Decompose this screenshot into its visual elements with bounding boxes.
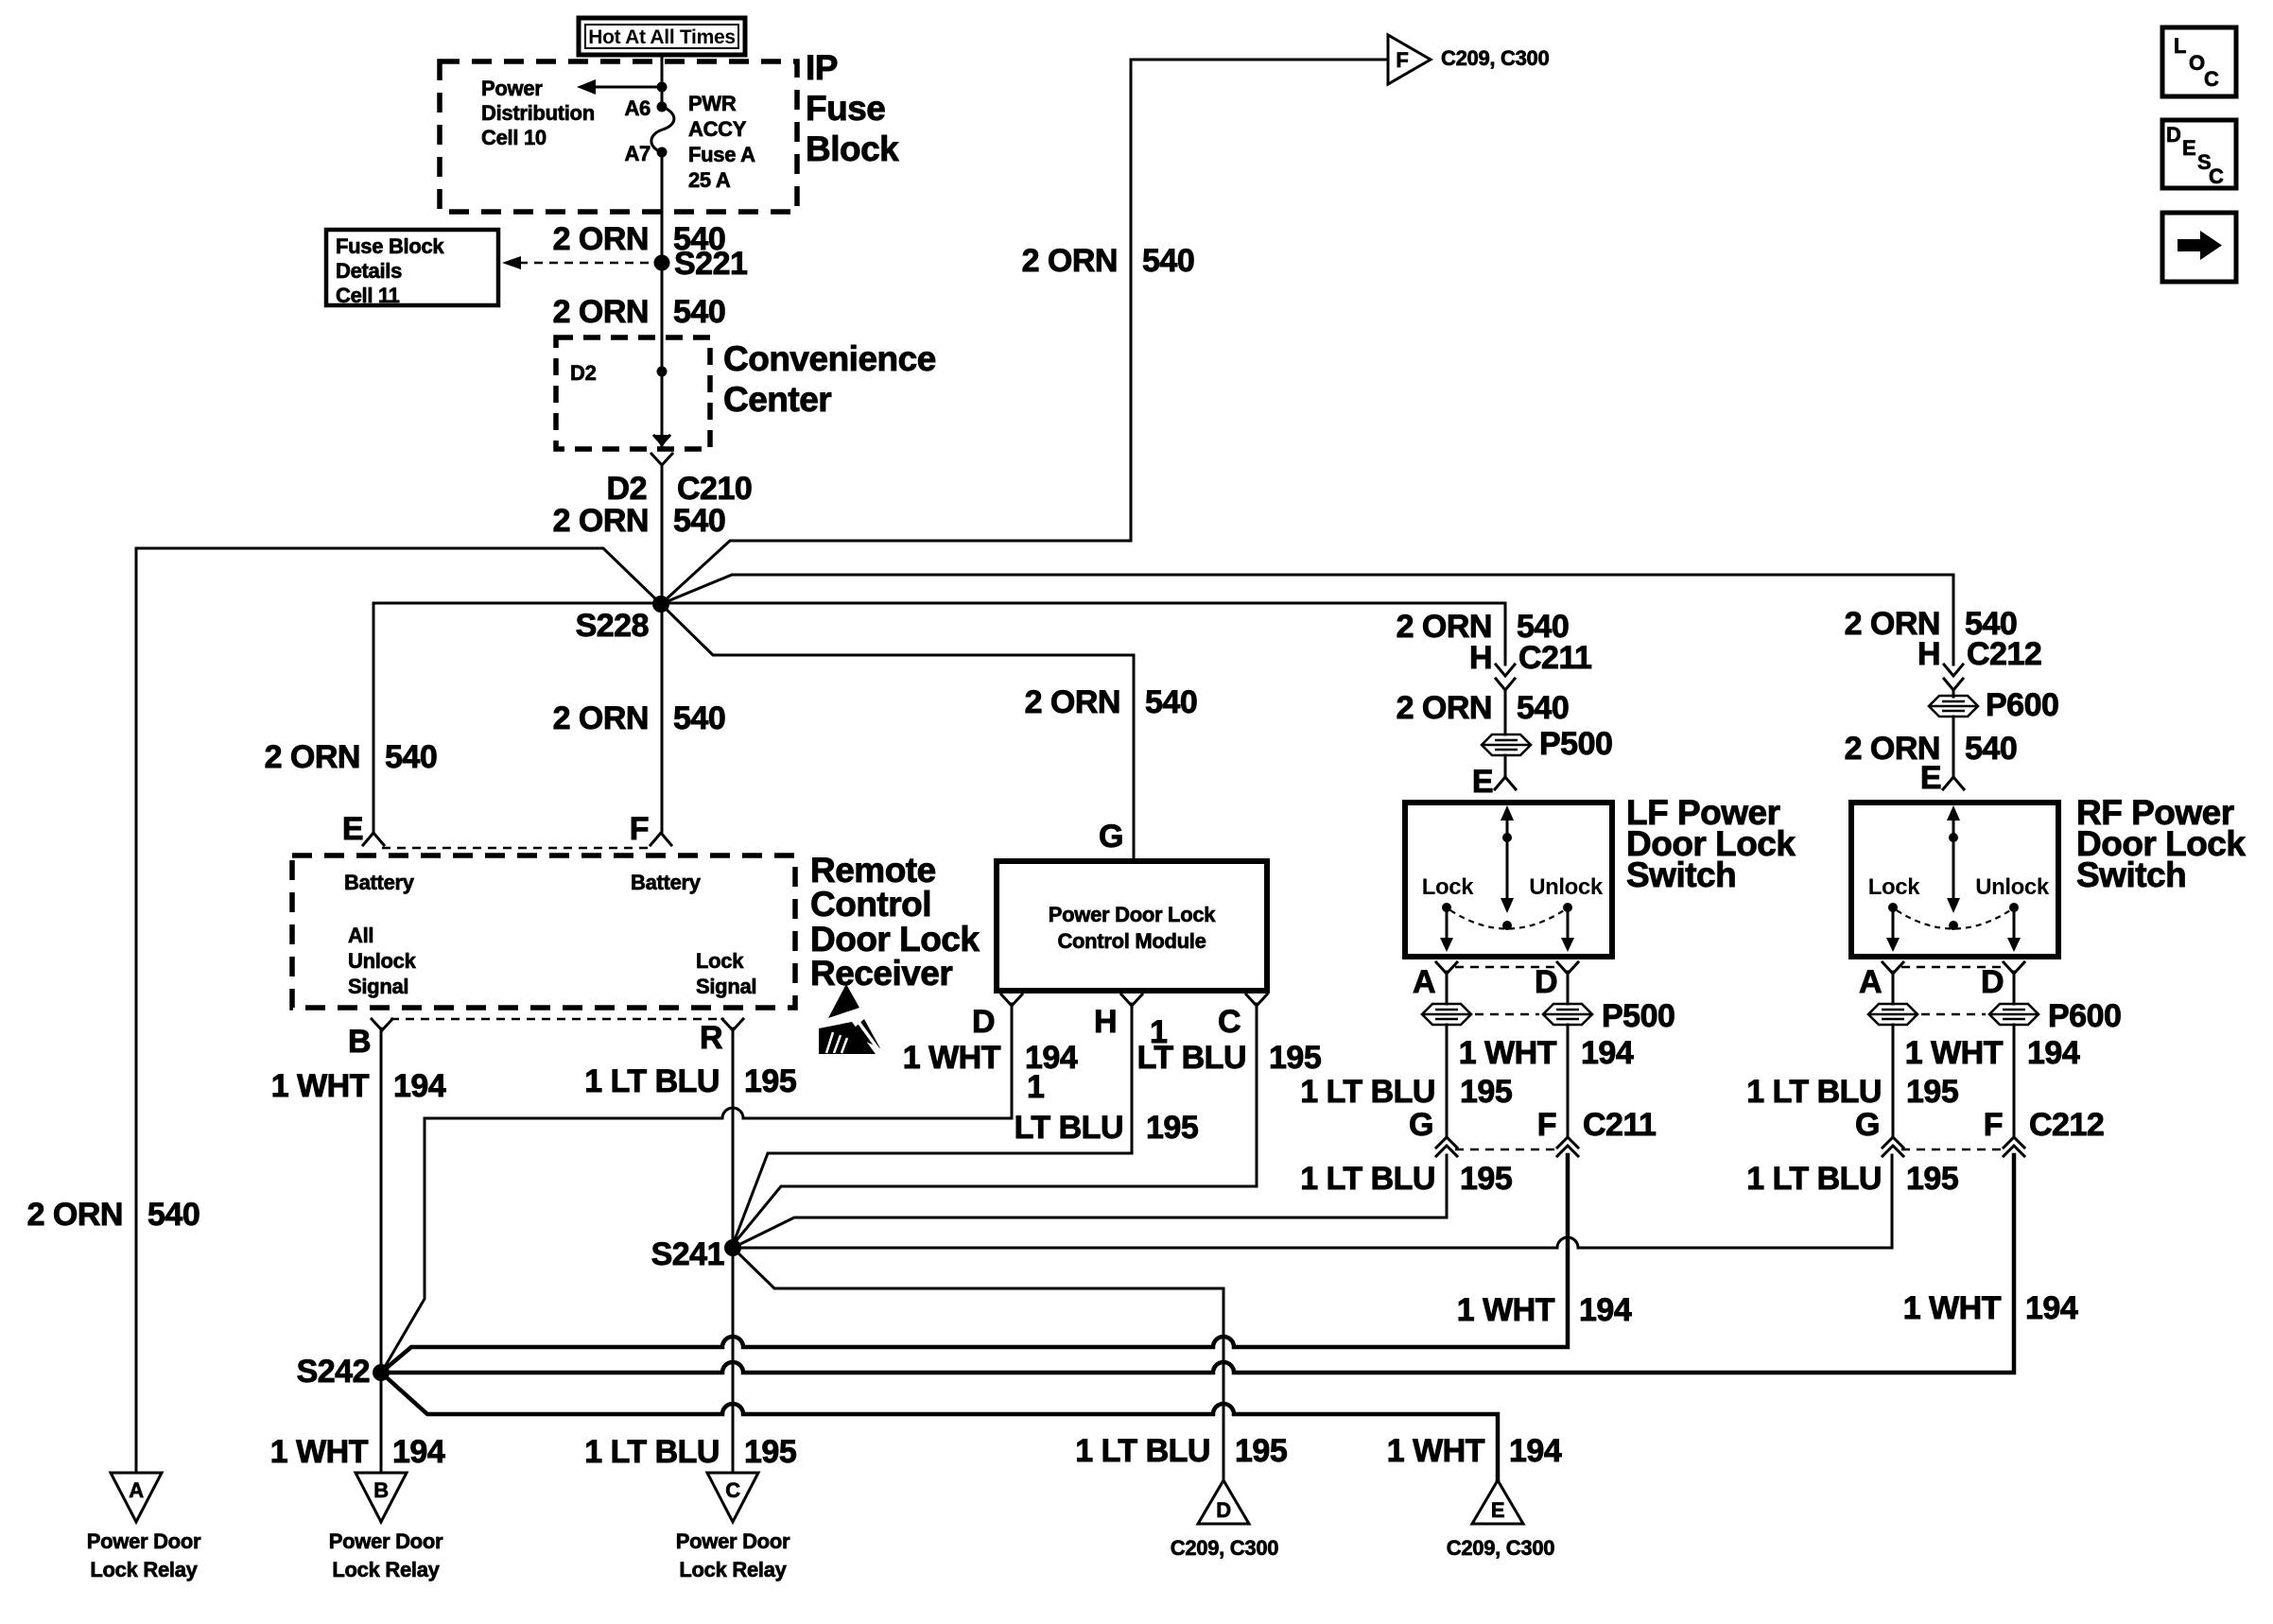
node pin R of receiver (Lock Signal) — [700, 1019, 743, 1056]
svg-text:195: 195 — [1235, 1433, 1287, 1469]
node pin E of RF switch — [1920, 760, 1964, 796]
svg-text:2 ORN: 2 ORN — [553, 700, 649, 736]
switch RF Lock contact — [1868, 874, 1920, 952]
svg-text:IP: IP — [806, 48, 838, 87]
svg-text:195: 195 — [1269, 1040, 1321, 1076]
svg-text:G: G — [1099, 819, 1123, 855]
svg-text:2 ORN: 2 ORN — [553, 503, 649, 539]
svg-text:All: All — [348, 924, 373, 947]
wire thin dashed connector line across RF switch pins — [1901, 966, 2005, 968]
svg-text:1 WHT: 1 WHT — [903, 1040, 1001, 1076]
wire 2 ORN 540 S228 branch to module pin G — [661, 604, 1134, 861]
svg-text:195: 195 — [1460, 1161, 1512, 1197]
node fuse value label PWR ACCY Fuse A 25 A — [688, 92, 755, 192]
Power Door Lock Control Module (box) — [997, 861, 1267, 991]
svg-text:1 LT BLU: 1 LT BLU — [584, 1434, 720, 1470]
svg-text:Power Door: Power Door — [87, 1529, 201, 1553]
wire 1 WHT 194 LF pin D to C211 pin F — [1567, 1025, 1570, 1137]
wire 1 LT BLU 195 S241 to LF C211 pin G — [733, 1155, 1447, 1248]
node pin A of LF switch — [1413, 962, 1457, 1000]
svg-text:540: 540 — [673, 294, 725, 330]
svg-text:A: A — [129, 1478, 144, 1502]
connector C212 lower (pins G and F) — [1855, 1107, 2104, 1156]
Remote Control Door Lock Receiver (dashed box) — [292, 855, 795, 1008]
svg-text:F: F — [1396, 48, 1408, 72]
svg-text:Cell 11: Cell 11 — [336, 284, 400, 307]
node pin H of module — [1094, 994, 1142, 1040]
switch RF internal common contact arm — [1897, 805, 2010, 930]
svg-text:1 WHT: 1 WHT — [1457, 1292, 1555, 1328]
svg-text:Power Door: Power Door — [329, 1529, 443, 1553]
wire RF pin A to P600 — [1892, 972, 1895, 1004]
svg-text:L: L — [2174, 34, 2186, 58]
svg-text:C212: C212 — [1967, 636, 2041, 672]
svg-text:1: 1 — [1027, 1069, 1044, 1105]
svg-text:1 LT BLU: 1 LT BLU — [1300, 1161, 1435, 1197]
wire LF pin D to P500 — [1567, 972, 1570, 1004]
wire 2 ORN 540 P600 to RF switch pin E — [1952, 717, 1955, 777]
svg-text:194: 194 — [2025, 1290, 2078, 1326]
svg-text:E: E — [2182, 136, 2195, 160]
svg-text:E: E — [1491, 1498, 1504, 1522]
svg-text:194: 194 — [2027, 1035, 2080, 1071]
switch LF internal common contact arm — [1450, 805, 1564, 930]
svg-text:540: 540 — [673, 700, 725, 736]
node pin D of module — [972, 994, 1022, 1040]
svg-text:1 LT BLU: 1 LT BLU — [1075, 1433, 1210, 1469]
svg-text:ACCY: ACCY — [688, 117, 747, 141]
svg-text:D: D — [1981, 964, 2004, 1000]
svg-text:E: E — [342, 811, 363, 847]
node pin D2 of convenience center — [657, 367, 668, 377]
fuse PWR ACCY Fuse A 25A (fuse element symbol) — [651, 107, 674, 152]
svg-text:Convenience: Convenience — [723, 339, 936, 378]
svg-text:Details: Details — [336, 259, 402, 283]
node pin A6 — [657, 102, 668, 112]
node pin A of RF switch — [1859, 962, 1903, 1000]
wire 1 WHT 194 S242 to LF C211 pin F (hops over two wires) — [381, 1155, 1568, 1373]
wire 2 ORN 540 from fuse A7 to S221 — [661, 152, 664, 445]
svg-text:1 WHT: 1 WHT — [1387, 1433, 1485, 1469]
svg-text:B: B — [373, 1478, 389, 1502]
svg-text:P600: P600 — [1986, 687, 2058, 723]
node pin F of receiver (Battery) — [651, 833, 671, 845]
svg-text:540: 540 — [1965, 731, 2017, 767]
svg-text:S242: S242 — [297, 1354, 370, 1390]
svg-text:Remote: Remote — [810, 851, 936, 890]
svg-text:H: H — [1917, 636, 1940, 672]
svg-text:F: F — [1984, 1107, 2003, 1143]
Convenience Center (dashed box) — [556, 337, 710, 449]
switch LF Lock contact — [1422, 874, 1474, 952]
node splice S242 — [373, 1364, 390, 1381]
node ESD sensitive symbol — [819, 984, 880, 1054]
connector C212 (in-line, H pin) on RF feed — [1917, 636, 2041, 690]
svg-text:Power: Power — [481, 77, 543, 100]
svg-text:195: 195 — [1906, 1161, 1958, 1197]
wire dashed reference arrow from S221 to fuse block details — [502, 256, 652, 269]
svg-text:1 LT BLU: 1 LT BLU — [584, 1063, 720, 1099]
grommet P500 on LF lock wire — [1422, 1004, 1471, 1025]
svg-text:Lock: Lock — [1422, 874, 1474, 900]
svg-text:1 WHT: 1 WHT — [1459, 1035, 1557, 1071]
wire 2 ORN 540 from C210 to S228 — [661, 464, 664, 833]
svg-text:Lock: Lock — [696, 949, 744, 973]
svg-text:Lock: Lock — [1868, 874, 1920, 900]
wire 2 ORN 540 S228 up-left branch to power door lock relay A (left column) — [136, 548, 661, 1473]
svg-text:195: 195 — [1906, 1074, 1958, 1110]
wire LF pin A to P500 — [1446, 972, 1449, 1004]
svg-text:2 ORN: 2 ORN — [553, 294, 649, 330]
svg-text:A: A — [1413, 964, 1435, 1000]
wire RF pin D to P600 — [2013, 972, 2016, 1004]
svg-text:194: 194 — [393, 1068, 446, 1104]
svg-text:194: 194 — [1509, 1433, 1562, 1469]
svg-text:Control: Control — [810, 885, 931, 924]
svg-text:Distribution: Distribution — [481, 101, 595, 125]
node pin A7 — [657, 147, 668, 158]
wire 1 WHT 194 RF pin D to C212 pin F — [2013, 1025, 2016, 1137]
svg-text:Unlock: Unlock — [348, 949, 417, 973]
svg-text:S241: S241 — [651, 1236, 724, 1272]
svg-text:D: D — [972, 1004, 995, 1040]
grommet P500 on LF feed — [1482, 726, 1612, 762]
grommet P600 on RF feed — [1929, 687, 2058, 723]
svg-text:P500: P500 — [1602, 998, 1674, 1034]
wire C212 to P600 (RF) — [1952, 689, 1955, 697]
svg-text:C211: C211 — [1518, 640, 1591, 676]
svg-text:D: D — [2166, 123, 2181, 147]
svg-text:2 ORN: 2 ORN — [265, 739, 360, 775]
wire 1 LT BLU 195 S241 to RF C212 pin G (hops over LF F wire) — [733, 1155, 1892, 1248]
svg-text:Receiver: Receiver — [810, 954, 952, 993]
wire 2 ORN 540 P500 to LF switch pin E — [1504, 755, 1507, 777]
svg-text:Battery: Battery — [344, 871, 415, 894]
svg-text:2 ORN: 2 ORN — [1397, 690, 1492, 726]
svg-text:E: E — [1472, 764, 1493, 800]
svg-text:C210: C210 — [677, 471, 752, 507]
wire 1 LT BLU 195 RF pin A to C212 pin G — [1892, 1025, 1895, 1137]
wire 1 LT BLU 195 from receiver R down to S241 — [732, 1028, 735, 1473]
svg-text:Power Door Lock: Power Door Lock — [1049, 903, 1216, 926]
svg-text:F: F — [630, 811, 649, 847]
svg-text:194: 194 — [392, 1434, 445, 1470]
svg-text:C: C — [725, 1478, 740, 1502]
node legend box LOC — [2162, 27, 2236, 96]
node Hot At All Times (power feed box) — [579, 18, 745, 55]
svg-text:Hot At All Times: Hot At All Times — [588, 26, 735, 48]
wire 2 ORN 540 S228 branch to RF switch (C212 pin H) — [661, 575, 1953, 665]
svg-text:2 ORN: 2 ORN — [27, 1197, 123, 1233]
node pin B of receiver (All Unlock Signal) — [348, 1019, 392, 1060]
wire thin dashed connector line across receiver bottom pins — [390, 1018, 724, 1020]
svg-text:25 A: 25 A — [688, 168, 731, 192]
svg-text:H: H — [1094, 1004, 1117, 1040]
svg-text:1 LT BLU: 1 LT BLU — [1746, 1074, 1882, 1110]
wire 2 ORN 540 S228 left branch to receiver pin E — [373, 603, 661, 833]
node Lock Signal label — [696, 949, 756, 998]
svg-text:Unlock: Unlock — [1975, 874, 2050, 900]
svg-text:G: G — [1409, 1107, 1433, 1143]
node pin D of LF switch — [1535, 962, 1578, 1000]
svg-text:Door Lock: Door Lock — [810, 920, 980, 959]
svg-text:P500: P500 — [1539, 726, 1612, 762]
grommet P600 on RF unlock wire — [1921, 998, 2121, 1034]
connector A to Power Door Lock Relay (triangle) — [87, 1473, 201, 1581]
node Power Distribution Cell 10 reference — [481, 77, 595, 149]
wire 2 ORN 540 C211 to P500 (LF) — [1504, 689, 1507, 734]
wire 1 LT BLU 195 from module H to S241 — [733, 1004, 1132, 1245]
svg-text:540: 540 — [673, 503, 725, 539]
node junction dot on feed — [657, 82, 668, 93]
svg-text:194: 194 — [1579, 1292, 1632, 1328]
wire 1 WHT 194 from receiver B down to S242 — [380, 1028, 383, 1473]
RF Power Door Lock Switch (box) — [1851, 793, 2246, 957]
svg-text:LT BLU: LT BLU — [1015, 1110, 1123, 1146]
svg-text:D: D — [1216, 1498, 1231, 1522]
svg-text:Signal: Signal — [696, 975, 756, 998]
svg-text:C212: C212 — [2029, 1107, 2104, 1143]
node splice S221 — [654, 255, 670, 271]
wire thin dashed connector line across LF switch pins — [1455, 966, 1559, 968]
svg-text:Cell 10: Cell 10 — [481, 126, 547, 149]
svg-text:G: G — [1855, 1107, 1880, 1143]
svg-text:1 WHT: 1 WHT — [1903, 1290, 2002, 1326]
node IP Fuse Block label — [806, 48, 899, 168]
grommet P500 on LF unlock wire — [1475, 998, 1674, 1034]
IP Fuse Block (dashed box) — [440, 61, 797, 212]
svg-text:Lock Relay: Lock Relay — [90, 1558, 198, 1581]
svg-text:540: 540 — [1142, 243, 1194, 279]
svg-text:O: O — [2189, 51, 2205, 75]
node pin C of module — [1218, 994, 1267, 1040]
switch RF Unlock contact — [1975, 874, 2050, 952]
svg-text:194: 194 — [1581, 1035, 1634, 1071]
wire 1 WHT 194 S242 to RF C212 pin F (hops over two wires) — [381, 1155, 2014, 1373]
svg-text:C209, C300: C209, C300 — [1171, 1536, 1278, 1560]
svg-text:Lock Relay: Lock Relay — [679, 1558, 787, 1581]
wire 1 LT BLU 195 LF pin A to C211 pin G — [1446, 1025, 1449, 1137]
connector B to Power Door Lock Relay (triangle) — [329, 1473, 443, 1581]
svg-text:1 LT BLU: 1 LT BLU — [1746, 1161, 1882, 1197]
wire trunk from Hot At All Times into fuse block — [661, 55, 664, 107]
svg-text:A7: A7 — [624, 142, 651, 165]
svg-text:Unlock: Unlock — [1529, 874, 1604, 900]
wire 1 LT BLU 195 S241 to connector D (C209,C300) — [733, 1248, 1223, 1480]
svg-text:Lock Relay: Lock Relay — [332, 1558, 440, 1581]
svg-text:S221: S221 — [674, 246, 747, 282]
connector C211 (in-line, H pin) on LF feed — [1469, 640, 1591, 690]
svg-text:195: 195 — [1460, 1074, 1512, 1110]
svg-text:H: H — [1469, 640, 1492, 676]
svg-text:195: 195 — [1146, 1110, 1198, 1146]
svg-text:S228: S228 — [576, 608, 649, 644]
node pin E of receiver (Battery) — [363, 833, 384, 845]
svg-text:Fuse: Fuse — [806, 89, 885, 128]
svg-text:540: 540 — [385, 739, 437, 775]
svg-text:Center: Center — [723, 380, 831, 419]
connector C to Power Door Lock Relay (triangle) — [676, 1473, 790, 1581]
svg-text:C209, C300: C209, C300 — [1447, 1536, 1554, 1560]
svg-text:195: 195 — [744, 1434, 796, 1470]
node Fuse Block Details Cell 11 reference box — [326, 230, 498, 307]
wire 2 ORN 540 S228 branch up to connector F (C209,C300) — [661, 60, 1386, 604]
svg-text:Fuse A: Fuse A — [688, 143, 755, 166]
wire 1 WHT 194 S242 to connector E (C209,C300) (hops over two wires) — [381, 1373, 1498, 1480]
wire branch arrow to power distribution — [577, 79, 662, 95]
svg-text:Fuse Block: Fuse Block — [336, 234, 444, 258]
wire 2 ORN 540 S228 branch to LF switch (C211 pin H) — [373, 603, 1505, 665]
svg-text:B: B — [348, 1024, 371, 1060]
wire thin dashed connector line across receiver top pins — [382, 847, 652, 849]
svg-text:1 WHT: 1 WHT — [1905, 1035, 2004, 1071]
svg-text:C: C — [2204, 67, 2219, 91]
wire arrow into convenience center bottom — [654, 435, 669, 448]
svg-text:PWR: PWR — [688, 92, 737, 115]
wire 1 LT BLU 195 from module C to S241 — [733, 1004, 1257, 1245]
svg-text:195: 195 — [744, 1063, 796, 1099]
svg-text:E: E — [1920, 760, 1941, 796]
svg-text:Battery: Battery — [631, 871, 702, 894]
node pin E of LF switch — [1472, 764, 1516, 800]
svg-text:1 WHT: 1 WHT — [271, 1068, 370, 1104]
svg-text:LT BLU: LT BLU — [1137, 1040, 1246, 1076]
node splice S241 — [724, 1239, 741, 1256]
node pin D2 / connector C210 label — [607, 471, 753, 507]
svg-text:A6: A6 — [624, 96, 651, 120]
svg-text:F: F — [1537, 1107, 1556, 1143]
LF Power Door Lock Switch (box) — [1405, 793, 1796, 957]
svg-text:D2: D2 — [607, 471, 647, 507]
connector F to C209, C300 (triangle) — [1388, 35, 1549, 84]
connector C210 (pin symbol below convenience center) — [651, 436, 672, 465]
svg-text:C209, C300: C209, C300 — [1441, 46, 1549, 70]
grommet P600 on RF lock wire — [1868, 1004, 1917, 1025]
svg-text:C211: C211 — [1583, 1107, 1656, 1143]
svg-text:Power Door: Power Door — [676, 1529, 790, 1553]
svg-text:540: 540 — [1145, 684, 1197, 720]
connector C211 lower (pins G and F) — [1409, 1107, 1656, 1156]
switch LF Unlock contact — [1529, 874, 1604, 952]
svg-text:P600: P600 — [2048, 998, 2121, 1034]
node All Unlock Signal label — [348, 924, 417, 998]
svg-text:D2: D2 — [570, 361, 597, 385]
node pin D of RF switch — [1981, 962, 2024, 1000]
node splice S228 — [652, 596, 669, 613]
svg-text:540: 540 — [147, 1197, 200, 1233]
svg-text:C: C — [1218, 1004, 1241, 1040]
svg-text:540: 540 — [1517, 690, 1569, 726]
connector E to C209, C300 (triangle) — [1447, 1480, 1554, 1560]
svg-text:2 ORN: 2 ORN — [1025, 684, 1120, 720]
svg-text:1 LT BLU: 1 LT BLU — [1300, 1074, 1435, 1110]
node legend box DESC — [2162, 120, 2236, 188]
node legend box arrow — [2162, 213, 2236, 282]
svg-text:C: C — [2209, 164, 2224, 188]
svg-text:2 ORN: 2 ORN — [1022, 243, 1118, 279]
svg-text:1 WHT: 1 WHT — [270, 1434, 369, 1470]
svg-text:Switch: Switch — [1626, 855, 1736, 894]
svg-text:A: A — [1859, 964, 1882, 1000]
svg-text:Control Module: Control Module — [1057, 929, 1206, 953]
svg-text:Block: Block — [806, 130, 899, 168]
connector D to C209, C300 (triangle) — [1171, 1480, 1278, 1560]
svg-text:Signal: Signal — [348, 975, 408, 998]
svg-text:R: R — [700, 1020, 722, 1056]
svg-text:Switch: Switch — [2076, 855, 2186, 894]
wire 1 WHT 194 from module D to S242 (hops over R wire) — [382, 1004, 1012, 1372]
svg-text:2 ORN: 2 ORN — [553, 221, 649, 257]
svg-text:D: D — [1535, 964, 1557, 1000]
